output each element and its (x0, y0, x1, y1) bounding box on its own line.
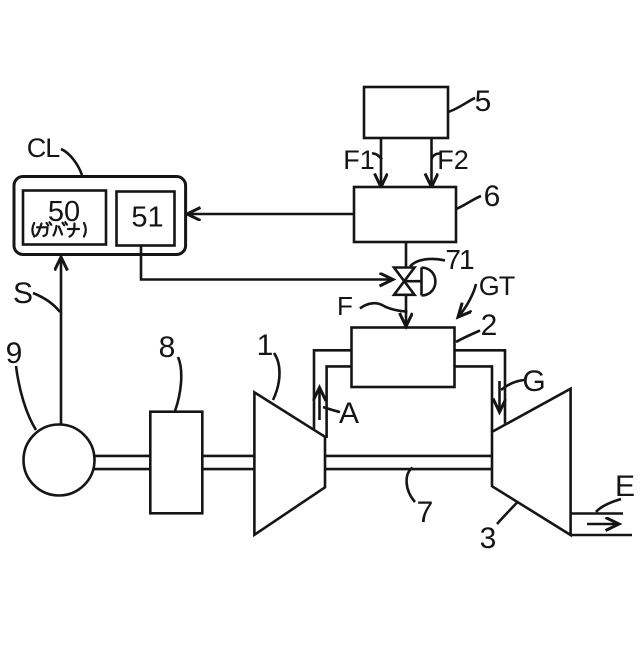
leader 7 (407, 468, 415, 503)
leader G (501, 380, 524, 390)
svg-text:7: 7 (417, 496, 434, 529)
leader 8 (175, 357, 181, 411)
leader 1 (273, 353, 280, 400)
svg-text:6: 6 (484, 180, 501, 213)
svg-text:E: E (615, 470, 635, 503)
svg-text:F2: F2 (437, 145, 469, 175)
leader F2 (432, 154, 441, 160)
svg-text:F1: F1 (343, 145, 375, 175)
arrow A (318, 388, 321, 421)
box 6 (354, 187, 456, 242)
leader A (323, 407, 340, 412)
box 51 (117, 192, 175, 246)
wire 51 to valve (141, 246, 393, 280)
wire S (60, 257, 63, 424)
combustor 2 (352, 328, 455, 388)
leader 2 (456, 331, 480, 343)
leader F (360, 303, 408, 311)
leader CL (61, 149, 82, 175)
svg-text:8: 8 (159, 331, 176, 364)
duct outer wall (314, 350, 505, 430)
svg-text:9: 9 (6, 337, 23, 370)
valve 71 bowtie (394, 268, 415, 295)
svg-text:51: 51 (131, 202, 163, 234)
wire F valve to combustor (405, 295, 408, 327)
wire F1 (380, 139, 383, 187)
svg-text:S: S (13, 277, 33, 310)
svg-text:3: 3 (480, 522, 497, 555)
turbine 3 (492, 389, 571, 535)
label ガバナ (governor) (32, 222, 85, 236)
arrow GT (458, 284, 476, 317)
leader 5 (448, 98, 475, 112)
wire box6 to CL (187, 213, 354, 216)
leader 71 (410, 259, 445, 267)
exhaust arrow E (587, 523, 619, 526)
leader 9 (16, 366, 36, 430)
svg-text:2: 2 (481, 309, 498, 342)
shaft 7 (59, 456, 494, 469)
svg-text:GT: GT (479, 271, 515, 301)
duct inner wall (327, 366, 492, 438)
svg-text:5: 5 (475, 85, 492, 118)
svg-text:A: A (339, 397, 359, 430)
leader 6 (456, 196, 481, 209)
leader 3 (497, 502, 518, 524)
exhaust duct lines (571, 514, 632, 536)
svg-text:1: 1 (257, 329, 274, 362)
svg-text:F: F (337, 291, 353, 321)
svg-text:71: 71 (445, 244, 474, 275)
leader E (596, 499, 621, 512)
compressor 1 (254, 392, 325, 535)
gearbox 8 (150, 412, 202, 514)
box 5 (364, 87, 448, 138)
leader S (33, 293, 60, 312)
generator 9 (24, 425, 95, 496)
controller CL box (14, 177, 186, 255)
governor box 50 (23, 191, 106, 245)
valve 71 actuator (405, 268, 436, 296)
svg-text:CL: CL (27, 133, 60, 163)
svg-text:G: G (522, 365, 545, 398)
wire F2 (430, 139, 433, 187)
wire box6 to valve (405, 242, 408, 268)
leader F1 (372, 153, 382, 159)
arrow G (498, 381, 501, 412)
